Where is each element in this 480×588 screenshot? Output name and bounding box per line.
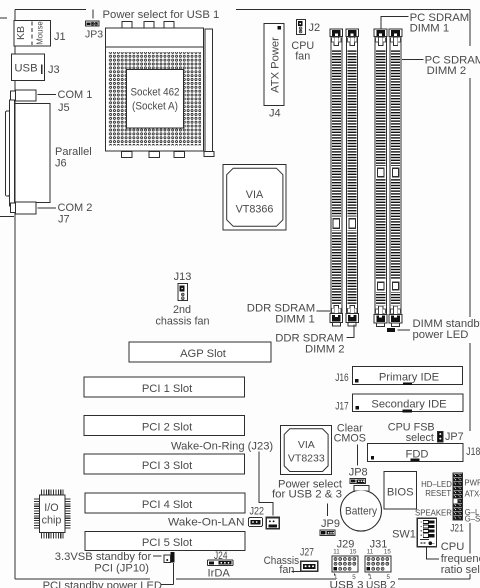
connector Secondary IDE	[353, 394, 464, 412]
CPU socket 462 center plate	[127, 70, 184, 128]
svg-text:JP7: JP7	[445, 431, 464, 443]
svg-text:SPEAKER: SPEAKER	[415, 509, 452, 518]
svg-text:ATX–SW: ATX–SW	[465, 489, 480, 498]
svg-text:power LED: power LED	[413, 329, 469, 341]
svg-text:Wake-On-Ring (J23): Wake-On-Ring (J23)	[171, 440, 273, 452]
connector J7 COM 2	[11, 203, 16, 213]
board outline bottom edge	[15, 578, 150, 580]
pin header J21	[453, 473, 463, 520]
chip I/O	[39, 495, 65, 533]
svg-text:KB: KB	[15, 26, 27, 40]
svg-text:USB 2: USB 2	[366, 580, 396, 588]
PCI slot 5	[85, 532, 245, 551]
PCI slot 1	[84, 377, 245, 397]
chip BIOS	[384, 471, 416, 509]
svg-text:G–SW: G–SW	[465, 515, 480, 524]
svg-text:J27: J27	[300, 547, 314, 559]
svg-text:PCI 1 Slot: PCI 1 Slot	[142, 383, 193, 395]
PC SDRAM DIMM slot 4 (PC SDRAM DIMM 2)	[389, 29, 402, 36]
svg-text:J2: J2	[309, 22, 321, 34]
chassis bracket mark left	[0, 216, 14, 218]
connector J1 KB/Mouse	[14, 21, 51, 47]
svg-text:PCI 3 Slot: PCI 3 Slot	[142, 460, 193, 472]
svg-text:COM 2: COM 2	[58, 202, 93, 214]
connector J24 IrDA	[207, 560, 233, 565]
svg-text:VIA: VIA	[246, 189, 264, 201]
battery	[341, 490, 382, 531]
chassis bracket mark top-left	[0, 17, 7, 19]
svg-text:CPU: CPU	[441, 541, 465, 553]
DDR DIMM slot 1 (DDR SDRAM DIMM 1)	[330, 29, 343, 36]
connector J3 USB	[12, 54, 45, 80]
svg-text:USB: USB	[14, 63, 37, 75]
leader line to JP9	[327, 504, 329, 517]
svg-text:DIMM 2: DIMM 2	[427, 65, 467, 77]
svg-text:Parallel: Parallel	[55, 146, 92, 158]
jumper JP8	[350, 479, 366, 484]
svg-text:15: 15	[350, 549, 357, 556]
svg-text:PWR–LED: PWR–LED	[464, 479, 480, 488]
leader line PC SDRAM DIMM 2	[402, 58, 424, 60]
svg-text:BIOS: BIOS	[387, 487, 414, 499]
svg-text:Primary IDE: Primary IDE	[379, 372, 439, 384]
svg-text:J13: J13	[174, 271, 192, 283]
svg-text:COM 1: COM 1	[58, 89, 93, 101]
svg-text:Wake-On-LAN: Wake-On-LAN	[168, 516, 245, 528]
board outline top edge	[15, 9, 86, 11]
svg-text:SW1: SW1	[392, 529, 416, 541]
leader line DIMM standby power LED	[398, 329, 411, 331]
svg-text:JP9: JP9	[321, 518, 340, 530]
svg-text:AGP Slot: AGP Slot	[180, 348, 227, 360]
svg-text:PCI 4 Slot: PCI 4 Slot	[142, 499, 193, 511]
leader line PC SDRAM DIMM 1	[381, 17, 409, 29]
svg-text:15: 15	[384, 549, 391, 556]
svg-text:Socket 462: Socket 462	[131, 87, 180, 99]
CPU socket 462 bottom tabs	[121, 151, 132, 157]
jumper JP7	[438, 431, 444, 442]
connector J23 Wake-On-Ring	[266, 518, 279, 529]
leader line SW1 to CPU frequency ratio select	[427, 548, 440, 559]
leader line JP10 to PCI standby power LED label	[173, 563, 175, 585]
svg-text:JP8: JP8	[349, 467, 368, 479]
svg-text:chip: chip	[42, 515, 62, 527]
svg-text:J4: J4	[269, 108, 281, 120]
DIP switch SW1	[417, 518, 436, 546]
leader line chassis fan	[292, 570, 301, 572]
pin header J29 (USB 3)	[332, 556, 358, 572]
leader line DDR SDRAM DIMM 1	[317, 310, 331, 312]
svg-text:J21: J21	[450, 523, 464, 535]
chip VIA VT8366	[223, 165, 286, 231]
svg-text:J22: J22	[250, 506, 265, 518]
svg-text:IrDA: IrDA	[208, 568, 231, 580]
connector Primary IDE	[353, 367, 463, 385]
fan connector J27	[301, 561, 318, 571]
PC SDRAM DIMM slot 3 (PC SDRAM DIMM 1)	[374, 29, 387, 36]
svg-text:VT8366: VT8366	[236, 204, 274, 216]
leader line Clear CMOS to JP8	[357, 445, 359, 466]
svg-text:J17: J17	[335, 401, 349, 413]
LED JP10 3.3VSB standby	[170, 552, 174, 563]
chip VIA VT8233	[281, 425, 332, 474]
PCI slot 4	[85, 493, 245, 513]
svg-text:select: select	[406, 432, 434, 444]
CPU socket 462 top tabs	[122, 22, 132, 29]
PCI slot 3	[84, 454, 245, 474]
leader line Wake-On-Ring to J23	[259, 452, 273, 516]
connector FDD	[368, 444, 464, 462]
fan connector J2	[296, 20, 305, 35]
svg-text:PCI 2 Slot: PCI 2 Slot	[142, 421, 193, 433]
svg-text:JP3: JP3	[85, 29, 103, 41]
svg-text:J7: J7	[58, 214, 70, 226]
pin header J31 (USB 2)	[365, 556, 391, 572]
jumper JP3	[86, 21, 99, 26]
svg-text:J16: J16	[335, 372, 349, 384]
svg-text:11: 11	[367, 549, 374, 556]
connector J6 Parallel port	[15, 104, 50, 203]
svg-text:Secondary IDE: Secondary IDE	[371, 399, 446, 411]
connector J6 Parallel port shield	[6, 111, 10, 196]
leader line COM 1	[38, 94, 57, 96]
svg-text:2nd: 2nd	[173, 304, 191, 316]
connector J6 Parallel bracket plate	[10, 100, 15, 206]
CPU socket 462 pin grid	[108, 52, 201, 145]
svg-text:PCI standby power LED: PCI standby power LED	[43, 580, 162, 588]
svg-text:11: 11	[333, 549, 340, 556]
svg-text:ATX Power: ATX Power	[270, 37, 282, 93]
PCI slot 2	[84, 415, 245, 435]
leader line to JP3	[92, 10, 94, 19]
svg-text:DIMM 1: DIMM 1	[275, 314, 315, 326]
svg-text:J3: J3	[48, 64, 60, 76]
jumper JP9	[320, 530, 335, 536]
svg-text:fan: fan	[295, 50, 310, 62]
svg-text:J18: J18	[466, 446, 480, 458]
LED DIMM standby power LED	[387, 328, 395, 332]
svg-text:VT8233: VT8233	[288, 453, 325, 465]
svg-text:VIA: VIA	[298, 439, 315, 451]
svg-text:J1: J1	[54, 31, 66, 43]
connector J22 Wake-On-LAN	[249, 518, 263, 527]
svg-text:Power select for USB 1: Power select for USB 1	[103, 9, 220, 21]
connector J5 COM 1	[11, 91, 16, 101]
CPU socket lever bar	[205, 29, 213, 152]
svg-text:Mouse: Mouse	[36, 21, 45, 44]
svg-text:Battery: Battery	[345, 506, 378, 518]
svg-text:I/O: I/O	[44, 502, 58, 514]
svg-text:HD–LED: HD–LED	[421, 480, 452, 489]
leader line DDR SDRAM DIMM 2	[347, 324, 354, 337]
svg-text:PCI (JP10): PCI (JP10)	[94, 563, 149, 575]
svg-text:DIMM 2: DIMM 2	[305, 343, 345, 355]
leader line COM 2	[38, 207, 57, 209]
svg-text:RESET: RESET	[425, 489, 451, 498]
svg-text:(Socket A): (Socket A)	[132, 101, 178, 113]
svg-text:CMOS: CMOS	[334, 432, 366, 444]
board outline left edge	[14, 10, 16, 580]
CPU socket 462 body	[106, 28, 204, 151]
svg-text:3.3VSB standby for: 3.3VSB standby for	[55, 551, 152, 563]
svg-text:chassis fan: chassis fan	[155, 316, 209, 328]
svg-text:ratio select: ratio select	[441, 564, 480, 576]
svg-text:DIMM 1: DIMM 1	[410, 23, 450, 35]
svg-text:J5: J5	[58, 102, 70, 114]
svg-text:PCI 5 Slot: PCI 5 Slot	[142, 537, 193, 549]
svg-text:fan: fan	[279, 564, 294, 576]
svg-text:J6: J6	[55, 158, 67, 170]
svg-text:for USB 2 & 3: for USB 2 & 3	[272, 489, 342, 501]
fan connector J13	[178, 284, 188, 301]
board outline right edge	[469, 10, 471, 47]
svg-text:USB 3: USB 3	[330, 580, 364, 588]
connector J4 ATX Power	[264, 24, 284, 106]
DDR DIMM slot 2 (DDR SDRAM DIMM 2)	[346, 29, 359, 36]
AGP slot	[129, 342, 271, 362]
